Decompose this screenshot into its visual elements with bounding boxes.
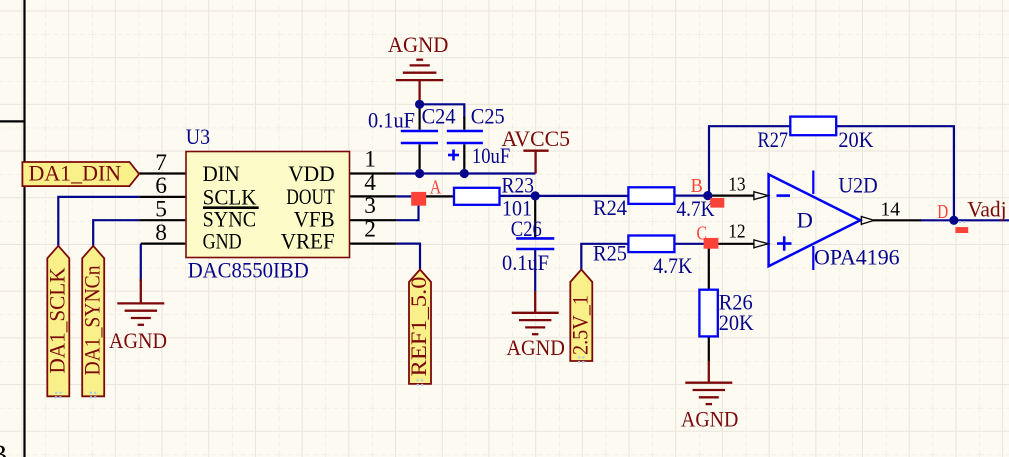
svg-text:7: 7 bbox=[155, 150, 167, 176]
svg-text:R25: R25 bbox=[593, 241, 627, 266]
svg-text:R27: R27 bbox=[758, 127, 789, 152]
svg-text:12: 12 bbox=[728, 221, 745, 243]
svg-text:8: 8 bbox=[155, 220, 167, 246]
svg-text:DA1_SCLK: DA1_SCLK bbox=[45, 268, 70, 374]
svg-text:C26: C26 bbox=[511, 216, 542, 241]
svg-text:14: 14 bbox=[881, 199, 901, 221]
svg-text:0.1uF: 0.1uF bbox=[502, 250, 549, 275]
svg-text:AGND: AGND bbox=[506, 335, 565, 360]
svg-text:DAC8550IBD: DAC8550IBD bbox=[188, 258, 309, 283]
svg-text:U3: U3 bbox=[186, 124, 210, 149]
svg-text:20K: 20K bbox=[838, 127, 873, 152]
svg-text:0.1uF: 0.1uF bbox=[368, 107, 415, 132]
svg-text:R23: R23 bbox=[502, 173, 535, 198]
svg-text:B: B bbox=[0, 440, 7, 457]
svg-text:B: B bbox=[691, 176, 703, 197]
svg-text:2: 2 bbox=[364, 217, 376, 243]
svg-text:20K: 20K bbox=[719, 310, 754, 335]
svg-text:GND: GND bbox=[203, 228, 242, 253]
svg-text:DIN: DIN bbox=[203, 161, 240, 186]
svg-text:5: 5 bbox=[155, 197, 167, 223]
svg-text:A: A bbox=[430, 177, 442, 198]
svg-text:VDD: VDD bbox=[288, 161, 335, 186]
svg-text:AGND: AGND bbox=[681, 407, 738, 432]
svg-text:3: 3 bbox=[364, 193, 376, 219]
svg-text:C25: C25 bbox=[471, 104, 505, 129]
svg-text:C: C bbox=[697, 223, 708, 244]
svg-text:R24: R24 bbox=[593, 195, 627, 220]
svg-text:DA1_SYNCn: DA1_SYNCn bbox=[79, 266, 104, 376]
svg-text:U2D: U2D bbox=[838, 173, 877, 198]
svg-text:1: 1 bbox=[364, 147, 376, 173]
svg-text:AGND: AGND bbox=[388, 32, 449, 57]
svg-text:D: D bbox=[937, 202, 948, 223]
svg-text:6: 6 bbox=[155, 173, 167, 199]
svg-text:13: 13 bbox=[728, 173, 745, 195]
svg-text:2.5V_1: 2.5V_1 bbox=[568, 295, 593, 355]
svg-text:AVCC5: AVCC5 bbox=[502, 126, 571, 151]
svg-text:VREF: VREF bbox=[281, 228, 335, 253]
svg-text:AGND: AGND bbox=[109, 328, 167, 353]
svg-text:4.7K: 4.7K bbox=[653, 253, 692, 278]
svg-text:D: D bbox=[797, 208, 813, 233]
svg-text:Vadj: Vadj bbox=[967, 197, 1006, 222]
svg-text:4: 4 bbox=[364, 170, 376, 196]
svg-text:OPA4196: OPA4196 bbox=[814, 245, 900, 270]
svg-text:DA1_DIN: DA1_DIN bbox=[29, 160, 122, 185]
svg-text:REF1_5.0: REF1_5.0 bbox=[406, 277, 431, 377]
svg-text:C24: C24 bbox=[422, 104, 456, 129]
svg-text:4.7K: 4.7K bbox=[677, 196, 715, 221]
